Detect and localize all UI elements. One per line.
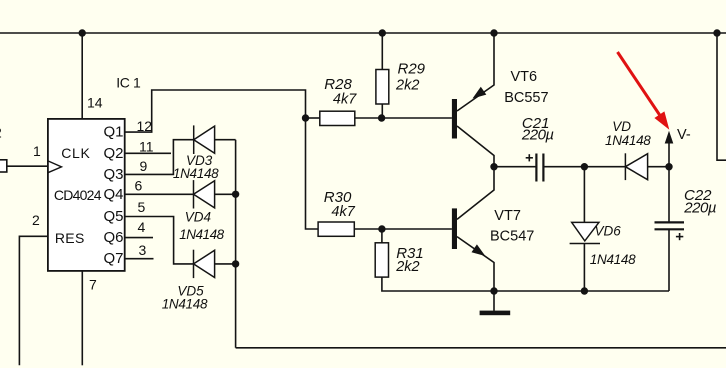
IC clock input triangle (48, 161, 62, 173)
diode VD3 (194, 125, 215, 154)
wire C21 left (494, 166, 536, 168)
svg-text:V-: V- (677, 127, 691, 143)
wire VT7 emitter (457, 237, 494, 291)
junction R29 bottom (378, 114, 385, 121)
svg-text:R28: R28 (324, 76, 352, 93)
resistor R29 (376, 70, 389, 105)
wire VD cathode left (584, 166, 625, 168)
capacitor C22 plates (655, 222, 685, 229)
svg-text:4k7: 4k7 (333, 92, 357, 108)
svg-text:RES: RES (55, 230, 85, 246)
wire right bracket (717, 33, 726, 160)
wire C22 top (668, 167, 670, 222)
transistor VT6 base bar (452, 99, 457, 139)
wire R29 top riser (381, 33, 383, 70)
svg-text:VT6: VT6 (511, 69, 538, 85)
wire VT6 emitter (457, 33, 494, 111)
wire VD6 bottom (583, 244, 585, 292)
svg-text:BC547: BC547 (490, 229, 534, 245)
wire pin 9 to VD3 (125, 140, 194, 175)
svg-text:1N4148: 1N4148 (590, 252, 636, 267)
svg-text:Q1: Q1 (104, 124, 124, 141)
wire node A drop to R30 (306, 118, 319, 229)
svg-text:7: 7 (89, 277, 97, 293)
svg-text:VT7: VT7 (494, 208, 521, 224)
transistor VT7 emitter arrow (472, 244, 486, 256)
svg-text:Q3: Q3 (104, 166, 124, 183)
junction diode bus at VD5 (232, 260, 239, 267)
svg-text:2: 2 (0, 125, 2, 141)
wire ground rail right (494, 290, 669, 292)
wire VD4 anode to bus (215, 193, 236, 195)
svg-text:BC557: BC557 (504, 90, 548, 106)
svg-text:4: 4 (138, 219, 146, 235)
wire pin 12 to node A (125, 90, 306, 132)
svg-text:1N4148: 1N4148 (179, 227, 224, 242)
svg-text:220µ: 220µ (683, 199, 716, 216)
svg-text:2: 2 (32, 212, 40, 228)
svg-text:2k2: 2k2 (395, 78, 419, 94)
diode VD5 (194, 250, 215, 278)
svg-text:220µ: 220µ (521, 127, 554, 144)
ground symbol bar (480, 311, 511, 316)
wire pin 7 drop (81, 271, 83, 365)
wire VD6 top (583, 167, 585, 223)
wire VT6 collector (457, 126, 494, 167)
wire pin 2 RES to bottom (19, 236, 48, 365)
junction C21 VD VD6 (581, 163, 588, 170)
wire pin 11 stub (125, 152, 171, 154)
resistor R28 (320, 111, 355, 125)
diode VD4 (194, 180, 215, 208)
wire pin 6 to VD4 (125, 193, 194, 195)
diode VD (625, 153, 647, 180)
wire top supply rail (0, 32, 726, 34)
svg-text:CD4024: CD4024 (54, 187, 102, 203)
svg-text:1N4148: 1N4148 (162, 297, 208, 312)
junction node A (302, 114, 309, 121)
junction collectors C21 (490, 163, 497, 170)
wire R29 bottom (381, 104, 383, 118)
junction VD C22 (665, 163, 672, 170)
wire VD5 anode to bus (215, 263, 236, 265)
svg-text:2k2: 2k2 (395, 259, 419, 275)
svg-text:5: 5 (138, 199, 146, 215)
wire R30 right to VT7 base (354, 228, 452, 230)
svg-text:6: 6 (135, 178, 143, 194)
red annotation arrow (618, 52, 670, 130)
wire bottom output line (236, 347, 726, 349)
wire C22 bottom (668, 230, 670, 291)
junction rail pin14 (79, 29, 86, 36)
wire VD3 anode to bus (215, 139, 236, 141)
svg-text:R29: R29 (398, 61, 426, 78)
ground stub (493, 291, 495, 311)
label C22 polarity + (676, 233, 683, 240)
svg-text:12: 12 (137, 118, 153, 134)
wire R31 top (381, 229, 383, 243)
resistor R31 (375, 243, 388, 277)
wire pin 3 stub (125, 258, 154, 260)
svg-text:9: 9 (140, 158, 148, 174)
svg-text:14: 14 (87, 95, 103, 111)
node V- arrow marker (665, 131, 674, 144)
svg-text:1: 1 (33, 143, 41, 159)
junction diode bus at VD4 (232, 191, 239, 198)
wire pin 1 CLK (7, 165, 48, 167)
junction rail VT6 (490, 29, 497, 36)
svg-text:4k7: 4k7 (331, 204, 355, 220)
resistor stub at left edge (0, 160, 7, 172)
diode VD6 (570, 222, 600, 243)
svg-text:1N4148: 1N4148 (605, 133, 651, 148)
svg-text:Q7: Q7 (104, 250, 124, 267)
transistor VT6 emitter arrow (473, 87, 487, 99)
svg-text:3: 3 (139, 242, 147, 258)
svg-text:VD: VD (612, 119, 631, 134)
wire R28 right to VT6 base (355, 117, 452, 119)
svg-text:IC 1: IC 1 (116, 75, 141, 91)
wire node A to R28 (306, 117, 320, 119)
junction ground VT7 (490, 287, 497, 294)
wire C21 right (544, 166, 584, 168)
wire VD anode to V- node (648, 166, 669, 168)
wire pin 5 to VD5 (125, 217, 194, 264)
wire diode bus vertical (235, 140, 237, 348)
wire pin 4 stub (125, 237, 153, 239)
svg-text:Q2: Q2 (104, 145, 124, 162)
svg-text:CLK: CLK (61, 145, 90, 161)
wire pin 14 riser (81, 33, 83, 119)
op IC1 CD4024 body (48, 119, 125, 271)
svg-text:11: 11 (139, 139, 154, 155)
junction rail right bracket (713, 29, 720, 36)
junction VD6 ground (581, 287, 588, 294)
svg-text:VD6: VD6 (595, 224, 622, 239)
wire V- node up (668, 144, 670, 167)
wire R31 bottom to ground rail (382, 277, 494, 291)
svg-text:Q4: Q4 (104, 186, 124, 203)
junction R31 top (378, 225, 385, 232)
capacitor C21 plates (536, 154, 543, 182)
svg-text:Q5: Q5 (104, 208, 124, 225)
wire VT7 collector (457, 167, 494, 220)
label C21 polarity + (526, 154, 533, 161)
transistor VT7 base bar (452, 208, 457, 249)
resistor R30 (318, 222, 354, 236)
junction rail R29 (379, 29, 386, 36)
svg-text:1N4148: 1N4148 (173, 166, 219, 181)
svg-text:VD4: VD4 (185, 210, 211, 225)
svg-text:Q6: Q6 (104, 229, 124, 246)
